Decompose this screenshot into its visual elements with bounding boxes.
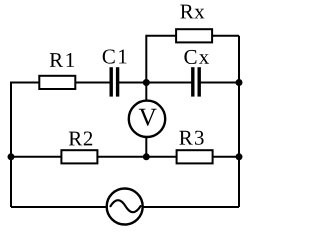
capacitor C1 xyxy=(103,50,127,97)
wire: Rx branch vertical xyxy=(145,35,147,83)
wire: top rail left segment xyxy=(11,82,111,84)
wire: top rail right segment xyxy=(199,82,239,84)
resistor Rx xyxy=(176,5,212,43)
wire: bottom rail xyxy=(11,206,239,208)
resistor R1 xyxy=(39,53,75,89)
node: middle rail / left vertical xyxy=(8,153,15,160)
node: top rail / right vertical xyxy=(236,79,243,86)
node: middle rail / voltmeter branch xyxy=(143,153,150,160)
wire: right vertical xyxy=(238,36,240,207)
wire: voltmeter branch vertical xyxy=(145,83,147,157)
voltmeter U1 xyxy=(129,101,165,137)
node: top rail / voltmeter branch xyxy=(143,79,150,86)
wire: top rail middle segment xyxy=(118,82,193,84)
AC source xyxy=(107,189,143,225)
wire: left vertical xyxy=(10,82,12,208)
resistor R3 xyxy=(177,131,213,164)
wire: middle rail xyxy=(11,156,239,158)
node: middle rail / right vertical xyxy=(236,153,243,160)
capacitor Cx xyxy=(184,50,209,97)
wire: Rx branch horizontal xyxy=(146,35,239,37)
resistor R2 xyxy=(61,132,97,164)
